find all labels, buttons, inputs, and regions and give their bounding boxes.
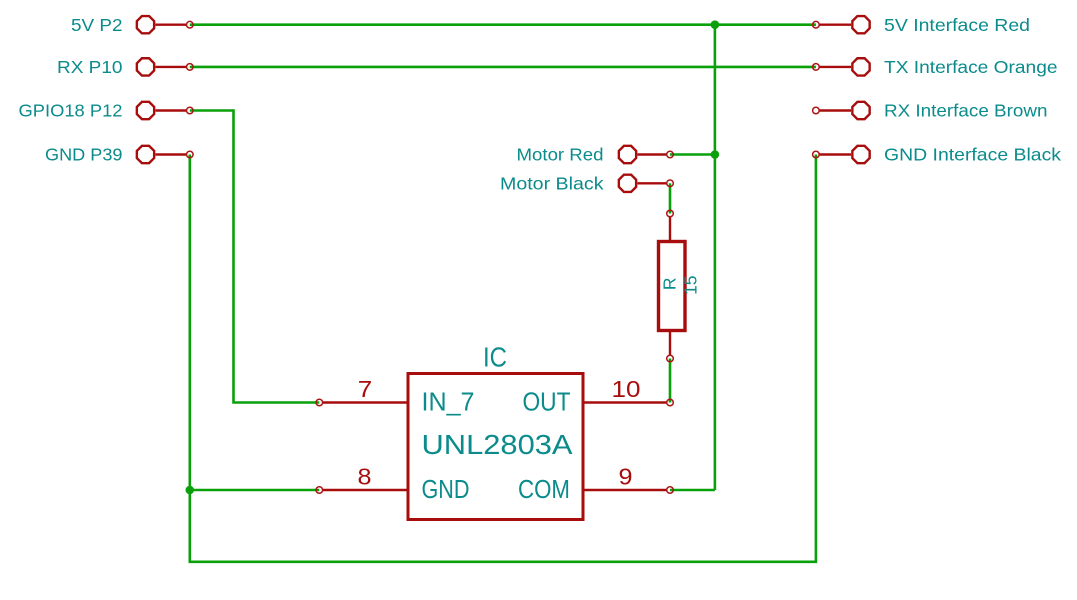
connector 5V Interface Red — [813, 16, 870, 33]
pin 8 — [316, 487, 408, 494]
svg-text:8: 8 — [358, 464, 372, 490]
junction 5V bus — [711, 20, 720, 29]
svg-text:UNL2803A: UNL2803A — [422, 429, 574, 460]
connector P39 (GND) — [137, 146, 193, 163]
connector RX Interface Brown — [813, 102, 870, 119]
connector Motor Red — [619, 146, 673, 163]
svg-text:R: R — [659, 277, 679, 290]
svg-text:GND Interface Black: GND Interface Black — [884, 145, 1061, 165]
svg-text:RX P10: RX P10 — [57, 57, 123, 77]
connector P12 (GPIO18) — [137, 102, 193, 119]
wire GND bottom run — [190, 155, 816, 562]
connector P10 (RX) — [137, 58, 193, 75]
wire resistor to OUT pin — [669, 359, 672, 403]
pin 10 — [583, 399, 673, 406]
svg-text:IC: IC — [483, 342, 507, 373]
pin 7 — [316, 399, 408, 406]
wire Motor Red to bus — [670, 153, 715, 156]
svg-text:TX Interface Orange: TX Interface Orange — [884, 57, 1058, 77]
wire GND to pin 8 — [190, 489, 319, 492]
connector GND Interface Black — [813, 146, 870, 163]
svg-text:Motor Red: Motor Red — [517, 145, 604, 165]
IC U1 body — [408, 374, 583, 520]
svg-text:10: 10 — [612, 376, 641, 402]
wire 5V net horizontal — [190, 23, 816, 26]
svg-text:GND: GND — [422, 474, 470, 504]
wire RX-TX net — [190, 66, 816, 69]
wire GND P39 down — [189, 155, 192, 491]
connector Motor Black — [619, 175, 673, 192]
svg-text:IN_7: IN_7 — [422, 387, 475, 417]
svg-text:9: 9 — [619, 464, 633, 490]
wire 5V bus vertical — [714, 25, 717, 490]
wire COM to bus — [670, 489, 715, 492]
wire GPIO18 to pin 7 — [190, 111, 319, 403]
svg-text:COM: COM — [518, 474, 570, 504]
svg-text:5V Interface Red: 5V Interface Red — [884, 15, 1030, 35]
resistor R — [659, 210, 686, 362]
svg-text:7: 7 — [358, 376, 373, 402]
junction GND at pin 8 — [186, 486, 195, 495]
svg-text:GND P39: GND P39 — [45, 145, 123, 165]
svg-text:RX Interface Brown: RX Interface Brown — [884, 101, 1048, 121]
junction Motor Red bus — [711, 150, 720, 159]
svg-text:Motor Black: Motor Black — [500, 174, 604, 194]
svg-text:OUT: OUT — [523, 387, 571, 417]
connector P2 (5V) — [137, 16, 193, 33]
pin 9 — [583, 487, 673, 494]
wire Motor Black to resistor — [669, 183, 672, 213]
svg-text:5V P2: 5V P2 — [71, 15, 123, 35]
svg-text:15: 15 — [680, 275, 700, 294]
connector TX Interface Orange — [813, 58, 870, 75]
svg-text:GPIO18 P12: GPIO18 P12 — [19, 101, 123, 121]
